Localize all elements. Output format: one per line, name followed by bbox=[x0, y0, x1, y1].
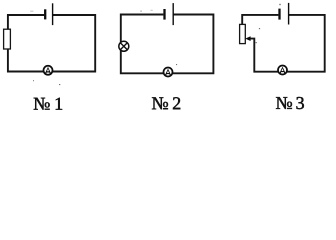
label № 1 bbox=[34, 98, 62, 110]
circuit 3 bbox=[240, 3, 325, 109]
circuit 2 bbox=[119, 3, 214, 109]
battery GB1 long plate (positive) bbox=[52, 3, 54, 25]
battery GB3 long plate (positive) bbox=[288, 3, 290, 25]
resistor R1 bbox=[4, 29, 11, 49]
ammeter A3 circle bbox=[278, 66, 287, 75]
wire: circuit 3 right loop (battery plus, right side, bottom, wiper riser) bbox=[250, 15, 325, 72]
ammeter A3 letter bbox=[279, 67, 285, 74]
wire: circuit 2 left loop (battery minus to lamp to ammeter) bbox=[121, 15, 164, 74]
battery GB2 long plate (positive) bbox=[172, 3, 174, 25]
ammeter A1 letter bbox=[45, 67, 51, 74]
lamp HL1 cross stroke 1 bbox=[120, 43, 127, 50]
wire: circuit 1 right loop (battery plus to ammeter) bbox=[53, 15, 96, 72]
circuit 1 bbox=[4, 3, 96, 109]
wire: circuit 3 rheostat top stub and top wire to battery minus bbox=[242, 15, 278, 25]
battery GB3 short plate (negative) bbox=[278, 9, 280, 20]
wire: circuit 1 left loop (battery minus to resistor to ammeter) bbox=[8, 15, 44, 72]
scan speckles bbox=[30, 4, 280, 85]
lamp HL1 cross stroke 2 bbox=[120, 43, 127, 50]
ammeter A2 circle bbox=[164, 68, 173, 77]
wire: circuit 2 right loop (battery plus to ammeter) bbox=[173, 15, 213, 74]
rheostat R2 wiper arrowhead bbox=[245, 36, 250, 41]
battery GB1 short plate (negative) bbox=[44, 9, 46, 19]
ammeter A1 circle bbox=[44, 66, 53, 75]
battery GB2 short plate (negative) bbox=[163, 9, 165, 20]
rheostat R2 body bbox=[240, 24, 246, 43]
label № 2 bbox=[152, 97, 180, 109]
lamp HL1 circle bbox=[119, 41, 129, 51]
label № 3 bbox=[276, 97, 304, 109]
ammeter A2 letter bbox=[165, 69, 171, 76]
